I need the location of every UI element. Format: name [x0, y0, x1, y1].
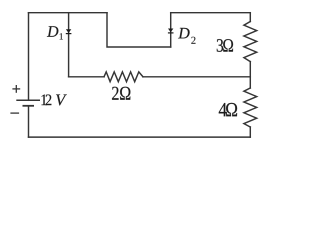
wire right side middle (3-ohm to 4-ohm, junction with 2-ohm wire) [249, 62, 251, 88]
wire right side top lead of 3-ohm resistor [249, 13, 251, 22]
wire left lead of 2-ohm resistor [69, 76, 104, 78]
battery 12V short negative plate [23, 105, 35, 107]
wire top-right horizontal (D2 top to right branch top corner) [171, 12, 251, 14]
resistor 4-ohm zigzag [244, 88, 257, 127]
wire step down-and-right to bottom of D2 branch [107, 13, 171, 47]
label 12 V source value [41, 94, 66, 105]
battery 12V long positive plate [16, 99, 40, 101]
wire left side lower (battery - plate down to bottom-left corner) [28, 106, 30, 137]
diode D2 symbol (filled triangle pointing down with cathode bar below) [168, 29, 174, 34]
wire D2 branch vertical [170, 13, 172, 47]
wire right lead of 2-ohm resistor to right branch junction [143, 76, 250, 78]
diode D1 symbol (filled triangle pointing down with cathode bar below) [66, 29, 72, 34]
wire right side bottom lead of 4-ohm resistor [249, 127, 251, 137]
label 3 ohm [217, 39, 233, 52]
label 2 ohm [112, 87, 130, 100]
wire top-left horizontal (battery + node to D1 top and step corner) [29, 12, 108, 14]
label D1 [47, 26, 63, 39]
wire D1 branch vertical [68, 13, 70, 77]
wire left side upper (top-left corner down to battery + plate) [28, 13, 30, 101]
battery minus sign [10, 112, 19, 114]
resistor 3-ohm zigzag [244, 22, 257, 62]
battery plus sign [12, 85, 20, 93]
label 4 ohm [219, 103, 237, 116]
label D2 [178, 28, 195, 44]
wire bottom horizontal [29, 136, 251, 138]
resistor 2-ohm zigzag [104, 72, 143, 82]
